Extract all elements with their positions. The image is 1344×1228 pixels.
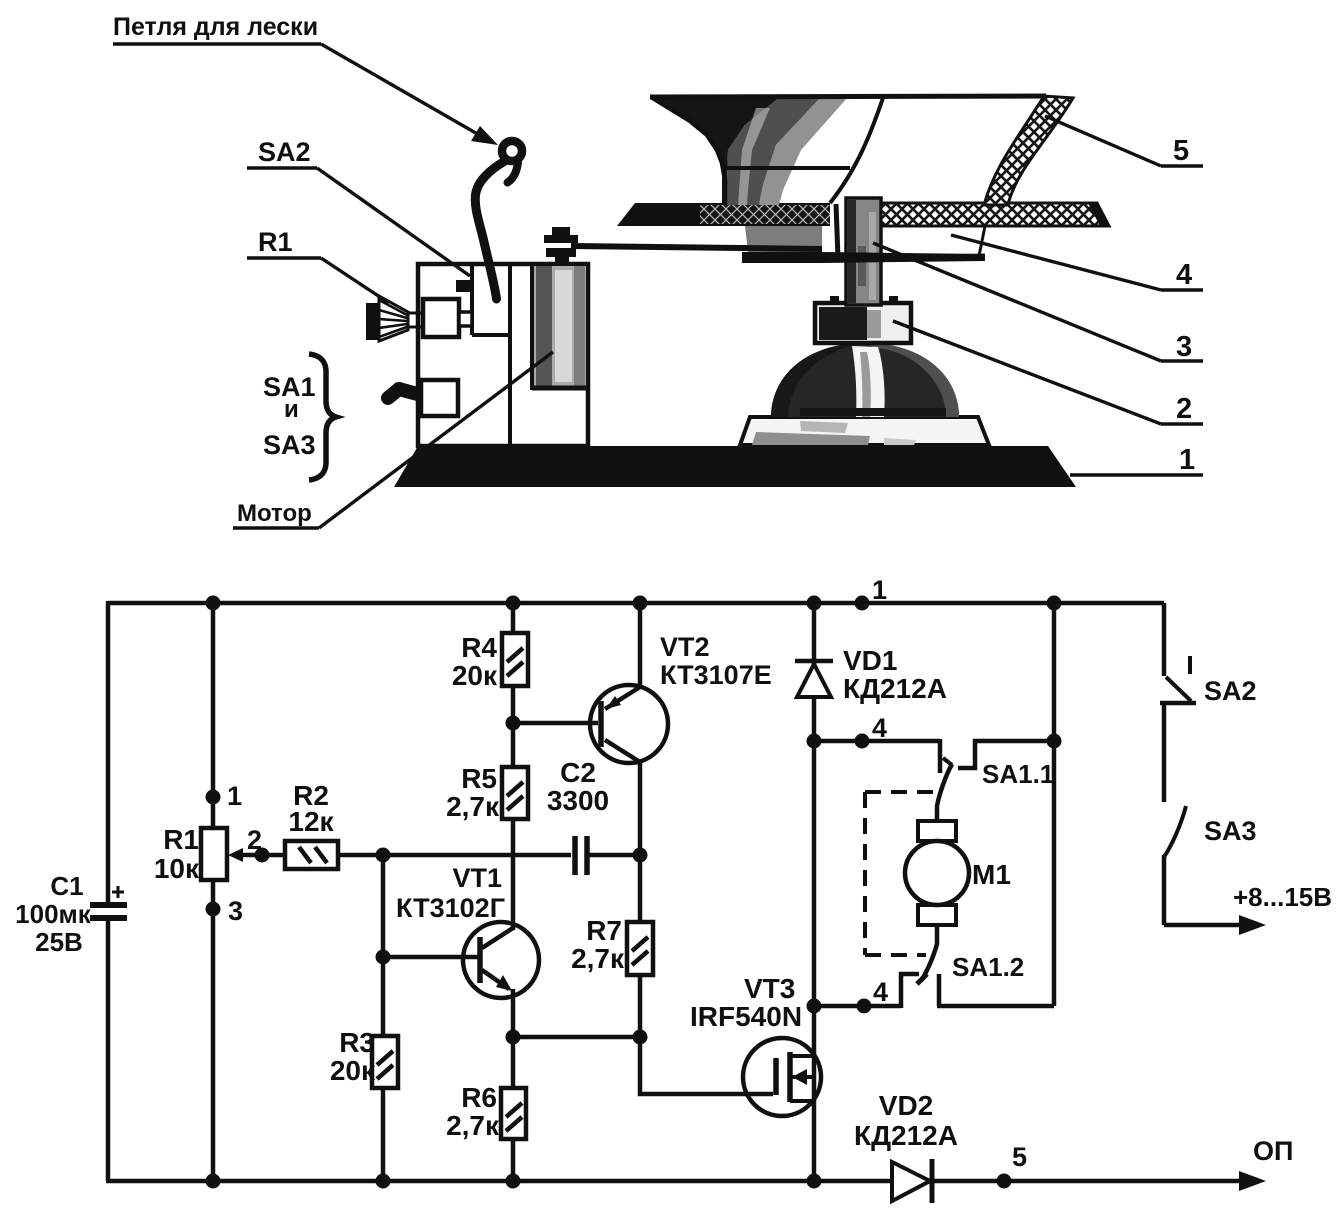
svg-text:VD2: VD2	[879, 1090, 933, 1121]
svg-text:КД212А: КД212А	[843, 673, 947, 704]
svg-text:1: 1	[227, 781, 242, 811]
SA3 blade	[1164, 806, 1186, 857]
spool lower flange	[742, 226, 985, 263]
arrow: +8...15В	[1239, 915, 1266, 935]
R1 potentiometer body	[423, 299, 459, 337]
svg-text:КТ3107Е: КТ3107Е	[660, 660, 772, 690]
svg-text:и: и	[284, 396, 299, 423]
arrow: ОП	[1239, 1171, 1266, 1191]
svg-text:SA2: SA2	[1204, 676, 1257, 706]
rib line	[725, 166, 850, 170]
wire: bottom common rail	[106, 1179, 1246, 1184]
svg-text:R3: R3	[339, 1027, 375, 1058]
SA1.1 left contact	[938, 739, 943, 773]
SA2-SA3 lead	[1162, 703, 1167, 802]
spool rim section (item 5) cross-hatched band	[984, 96, 1073, 205]
svg-text:SA3: SA3	[1204, 816, 1257, 846]
coupling block (item 2)	[815, 296, 911, 343]
svg-text:R5: R5	[461, 763, 497, 794]
SA1.1 right contact	[958, 739, 975, 768]
svg-text:SA3: SA3	[263, 430, 316, 460]
disc underside strip	[881, 226, 985, 257]
SA1.2 left contact	[901, 974, 919, 1008]
dashed enclosure of M1	[865, 792, 941, 955]
SA1.2 right contact	[937, 974, 942, 1006]
svg-text:Мотор: Мотор	[237, 500, 312, 527]
leader Мотор	[319, 352, 553, 528]
label R1 (mech)	[247, 227, 321, 258]
wire: left rail lower	[106, 920, 111, 1181]
wire: left rail upper	[106, 601, 111, 903]
svg-text:5: 5	[1012, 1142, 1027, 1172]
resistor R2	[285, 780, 338, 869]
svg-text:4: 4	[1176, 259, 1192, 291]
wire: node4 top horizontal right	[973, 739, 1054, 744]
SA1.1 blade	[937, 764, 952, 822]
resistor R3	[330, 1027, 398, 1088]
wire: right branch vertical	[1052, 603, 1057, 1006]
wire: x383 vertical (VT1 base divider)	[381, 855, 386, 1181]
label SA2 (mech)	[247, 137, 317, 168]
svg-text:25В: 25В	[35, 927, 83, 957]
svg-text:IRF540N: IRF540N	[690, 1001, 802, 1032]
diode VD2 (КД212А)	[854, 1090, 958, 1203]
winding disc (item 4) right part, cross-hatched	[881, 203, 1109, 226]
SA2 top lead	[1162, 603, 1167, 676]
guide rod	[571, 243, 822, 252]
motor dome (item 3 housing)	[771, 343, 959, 417]
resistor R6	[446, 1082, 526, 1141]
MOSFET VT3 (IRF540N)	[690, 973, 821, 1116]
svg-text:R4: R4	[461, 632, 497, 663]
svg-text:2,7к: 2,7к	[571, 943, 625, 974]
transistor VT1 (КТ3102Г, NPN)	[396, 863, 539, 998]
capacitor C1	[15, 871, 127, 957]
label: Петля для лески	[113, 13, 321, 44]
wire: VT1 base	[383, 955, 478, 960]
left outer edge	[651, 97, 725, 205]
transistor VT2 (КТ3107Е, PNP)	[590, 632, 772, 763]
svg-text:3: 3	[1176, 331, 1192, 363]
wire: top supply rail	[108, 601, 1164, 606]
loop wire stem	[475, 161, 505, 299]
svg-text:100мк: 100мк	[15, 899, 92, 929]
leader R1	[321, 258, 389, 303]
switch lever SA1/SA3	[388, 380, 458, 416]
diode VD1 (КД212А)	[795, 645, 947, 704]
housing box	[418, 264, 588, 446]
svg-text:4: 4	[873, 977, 888, 1007]
svg-text:VT2: VT2	[660, 632, 710, 662]
svg-text:20к: 20к	[330, 1055, 376, 1086]
svg-text:М1: М1	[972, 859, 1011, 890]
svg-text:SA2: SA2	[258, 137, 311, 167]
svg-text:С1: С1	[50, 871, 83, 901]
svg-text:SA1.1: SA1.1	[982, 759, 1054, 789]
svg-text:R1: R1	[258, 227, 293, 257]
SA1.2 blade	[921, 925, 937, 981]
loop wire tail	[508, 162, 519, 183]
svg-text:2: 2	[1176, 393, 1192, 425]
wire: R1 branch vertical	[211, 603, 216, 1181]
svg-text:КТ3102Г: КТ3102Г	[396, 893, 505, 923]
shaft (item 3)	[846, 198, 881, 305]
SA2 button tick	[1188, 656, 1192, 674]
wire: node4 bottom horizontal left	[814, 1004, 901, 1009]
leader line to loop	[321, 44, 481, 136]
base plate (item 1)	[394, 446, 1076, 487]
svg-text:5: 5	[1173, 135, 1189, 167]
dark left fill	[651, 97, 780, 205]
wire: VT2 base	[513, 721, 598, 726]
svg-text:R6: R6	[461, 1082, 497, 1113]
svg-text:ОП: ОП	[1253, 1136, 1293, 1166]
spool funnel (top)	[650, 96, 1046, 258]
svg-text:VT1: VT1	[452, 863, 502, 893]
SA2 bottom contact bar	[1160, 701, 1196, 706]
svg-text:2,7к: 2,7к	[446, 1110, 500, 1141]
svg-text:4: 4	[872, 713, 887, 743]
arrowhead of loop leader	[471, 126, 498, 145]
resistor R4	[452, 632, 528, 691]
svg-text:1: 1	[1179, 444, 1195, 476]
wire: C2 right to VT2 collector node	[589, 853, 640, 858]
wire: +8..15V output	[1164, 923, 1243, 928]
svg-text:VT3: VT3	[744, 973, 795, 1004]
wire: R2 to C2 horizontal	[234, 853, 571, 858]
wire: VT1 emitter node to R7 node	[513, 1035, 640, 1040]
rim top line	[650, 96, 1046, 97]
wire: SA1.2 to right branch	[937, 1004, 1054, 1009]
centre tube edge below	[836, 204, 838, 258]
capacitor C2	[547, 757, 609, 875]
wire: VT2 emitter/collector vertical + R7 + VT3 gate	[640, 603, 773, 1094]
svg-text:1: 1	[872, 575, 887, 605]
wire: VD1/VT3 branch vertical	[812, 603, 817, 1181]
callout digits 1-5	[873, 116, 1203, 476]
svg-text:R7: R7	[586, 915, 622, 946]
resistor R7	[571, 915, 653, 975]
svg-text:3: 3	[228, 896, 243, 926]
svg-text:R1: R1	[163, 824, 199, 855]
svg-text:20к: 20к	[452, 660, 498, 691]
svg-text:10к: 10к	[154, 853, 200, 884]
svg-text:SA1.2: SA1.2	[952, 952, 1024, 982]
svg-text:+8...15В: +8...15В	[1233, 882, 1332, 912]
leader SA2	[317, 168, 470, 276]
label Мотор	[233, 500, 319, 528]
svg-text:3300: 3300	[547, 785, 609, 816]
right interior curve	[830, 98, 883, 203]
wire: node4 top horizontal left	[814, 739, 940, 744]
svg-text:КД212А: КД212А	[854, 1120, 958, 1151]
motor M1	[905, 821, 1011, 925]
svg-text:Петля для лески: Петля для лески	[113, 13, 318, 41]
svg-text:12к: 12к	[288, 806, 334, 837]
SA3 bottom lead	[1162, 855, 1167, 925]
potentiometer R1	[154, 824, 243, 884]
label SA1 и SA3 with brace	[263, 354, 336, 480]
resistor R5	[446, 763, 528, 822]
svg-text:VD1: VD1	[843, 645, 897, 676]
friction drum inside housing	[532, 264, 588, 388]
SA2 blade	[1166, 677, 1191, 701]
motor stand trapezoid	[740, 417, 989, 445]
line loop (петля) ring	[502, 141, 522, 161]
winding disc (item 4) left part	[617, 203, 830, 226]
R1 knob	[366, 296, 423, 341]
small pulley on housing	[544, 227, 578, 266]
svg-text:2,7к: 2,7к	[446, 791, 500, 822]
wire: R4/R5 chain vertical	[511, 603, 516, 1181]
svg-text:С2: С2	[560, 757, 596, 788]
